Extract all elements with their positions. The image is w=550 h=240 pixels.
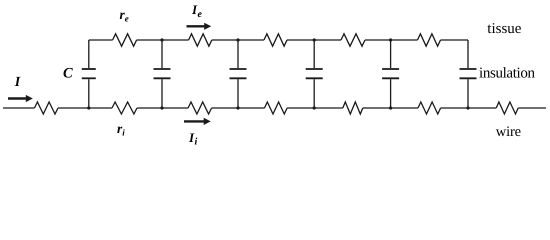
- capacitor C3 (column x=238): [230, 40, 247, 108]
- node: top rail junction x=162: [160, 38, 163, 41]
- svg-text:ri: ri: [117, 121, 125, 138]
- capacitor C5 (column x=390.6): [382, 40, 399, 108]
- node: bottom rail junction x=162: [160, 106, 163, 109]
- svg-text:I: I: [14, 75, 21, 90]
- wire: top rail segment: [212, 39, 264, 41]
- resistor r_e (top rail): [113, 34, 137, 46]
- arrow: input current I: [8, 95, 33, 102]
- resistor Ri5 (bottom rail): [418, 102, 441, 114]
- capacitor C4 (column x=314.2): [306, 40, 323, 108]
- svg-text:Ie: Ie: [191, 2, 202, 20]
- svg-text:tissue: tissue: [487, 21, 522, 37]
- wire: top rail last segment: [441, 39, 469, 41]
- wire: bottom rail segment: [287, 107, 343, 109]
- svg-text:re: re: [120, 7, 129, 24]
- wire: top rail segment: [89, 39, 113, 41]
- svg-text:insulation: insulation: [479, 66, 536, 82]
- wire: bottom rail last segment: [518, 107, 546, 109]
- wire: bottom rail segment: [3, 107, 35, 109]
- capacitor C6 (column x=468): [460, 40, 477, 108]
- svg-text:wire: wire: [496, 124, 521, 140]
- resistor Ri6 (bottom rail): [496, 102, 518, 114]
- wire: bottom rail segment: [58, 107, 112, 109]
- resistor r_i (bottom rail): [112, 102, 137, 114]
- node: bottom rail junction x=314.2: [313, 106, 316, 109]
- wire: bottom rail segment: [212, 107, 265, 109]
- resistor Re5 (top rail): [418, 34, 441, 46]
- svg-text:Ii: Ii: [188, 130, 197, 148]
- resistor Re2 (top rail): [189, 34, 212, 46]
- resistor Ri4 (bottom rail): [343, 102, 363, 114]
- resistor Re3 (top rail): [264, 34, 287, 46]
- arrow: current I_i: [184, 118, 211, 125]
- node: bottom rail junction x=390.6: [389, 106, 392, 109]
- node: bottom rail junction x=468: [466, 106, 469, 109]
- capacitor C2 (column x=162): [154, 40, 171, 108]
- wire: top rail segment: [365, 39, 418, 41]
- wire: bottom rail segment: [441, 107, 497, 109]
- arrow: current I_e: [187, 23, 212, 30]
- capacitor C1 (column x=88.8): [82, 40, 96, 108]
- resistor Ri3 (bottom rail): [265, 102, 288, 114]
- wire: bottom rail segment: [363, 107, 418, 109]
- node: top rail junction x=314.2: [313, 38, 316, 41]
- node: top rail junction x=238: [236, 38, 239, 41]
- svg-text:C: C: [63, 65, 73, 81]
- node: bottom rail junction x=88.8: [87, 106, 90, 109]
- wire: top rail segment: [137, 39, 189, 41]
- node: top rail junction x=390.6: [389, 38, 392, 41]
- resistor Re4 (top rail): [341, 34, 365, 46]
- resistor R_in (bottom rail): [35, 102, 59, 114]
- wire: top rail segment: [287, 39, 341, 41]
- wire: bottom rail segment: [137, 107, 188, 109]
- node: bottom rail junction x=238: [236, 106, 239, 109]
- resistor Ri2 (bottom rail): [188, 102, 212, 114]
